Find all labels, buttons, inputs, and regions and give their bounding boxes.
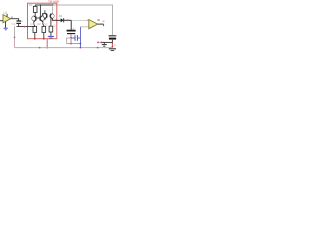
ground G4 at rail end — [109, 48, 116, 50]
wire Q4 collector from rail — [52, 5, 54, 14]
wire red drop from box bottom to ground rail — [46, 39, 48, 48]
ground (blue) under R4 — [50, 32, 52, 36]
transistor Q3 — [46, 13, 48, 17]
capacitor C2 — [67, 30, 76, 32]
node red junction after diode — [67, 19, 69, 21]
node red junction — [101, 42, 103, 44]
wire from Q4 out of box — [53, 19, 61, 21]
svg-text:U1: U1 — [3, 11, 7, 15]
op-amp U1 (left) — [3, 15, 11, 23]
wire rail left corner pink tint — [15, 40, 27, 48]
background — [0, 0, 120, 63]
node magenta dot — [70, 43, 72, 45]
wire U2 -in (gray) — [80, 26, 88, 28]
wire feedback column (blue) — [79, 27, 81, 48]
resistor R3 — [42, 26, 46, 32]
wire C2 bottom (red) — [70, 34, 72, 43]
wire Q2 collector up to Q3 base — [43, 14, 47, 16]
capacitor C1 — [16, 20, 21, 22]
svg-text:+: + — [73, 26, 75, 30]
node red dot left of U2 — [87, 19, 89, 20]
wire U1 V+ pin up — [6, 14, 8, 17]
node junction on rail at x=52.6 — [52, 4, 54, 6]
node magenta junction on rail — [97, 47, 99, 49]
wire U1 V- pin down — [5, 22, 7, 28]
wire from C1 into box — [17, 26, 35, 28]
op-amp U2 (right) — [89, 20, 98, 29]
node dark red junctions on box bottom line — [34, 38, 36, 40]
wire U1 input stub — [0, 20, 3, 22]
node magenta junction — [24, 26, 26, 28]
wire U1 output to C1 — [11, 19, 19, 21]
wire VCC top rail (gray segment to right edge and down) — [53, 5, 113, 35]
wire bottom link (gray) — [67, 43, 81, 45]
svg-text:Q1: Q1 — [30, 22, 34, 26]
capacitor C3 top plate — [109, 35, 117, 37]
transistor Q2 circle — [39, 16, 44, 21]
wire red segment to rail — [111, 42, 113, 47]
transistor Q1 — [35, 16, 37, 21]
transistor Q1 circle — [32, 16, 37, 21]
wire diode to junction — [64, 19, 71, 21]
wire U2 output — [98, 23, 104, 25]
svg-text:Q2: Q2 — [37, 22, 41, 26]
svg-text:C1: C1 — [12, 22, 16, 26]
node magenta junction on rail — [80, 47, 82, 49]
wire C4 to feedback column (blue) — [78, 37, 81, 39]
transistor Q4 — [50, 14, 52, 19]
resistor R4 — [49, 26, 53, 32]
wire collector Q2 from rail — [39, 5, 41, 16]
wire left drop to ground rail (gray) — [14, 26, 16, 47]
transistor Q3 circle — [43, 14, 48, 19]
resistor R2 — [33, 26, 37, 32]
wire VCC top rail (black segment inside box) — [35, 4, 53, 6]
node magenta dot on left drop — [14, 37, 16, 39]
port output tick — [103, 24, 105, 26]
wire Q3 collector stub up — [44, 10, 46, 13]
wire to U2 +in (light gray) — [71, 20, 89, 22]
svg-text:TR MIR: TR MIR — [48, 0, 60, 4]
wire R4 top lead — [50, 19, 52, 27]
label OUT (red) — [103, 21, 105, 22]
capacitor C4 (blue) wire — [71, 37, 75, 39]
node red dot at U1 output — [11, 17, 13, 18]
wire ground bottom rail (gray) — [15, 47, 113, 49]
label U2 (red) — [97, 19, 99, 21]
node magenta dot — [70, 37, 72, 39]
highlight box (red) — [28, 3, 57, 39]
svg-text:1u: 1u — [20, 19, 24, 23]
svg-text:C: C — [114, 43, 116, 47]
wire C3 bottom lead — [111, 40, 113, 43]
svg-text:+: + — [115, 34, 117, 38]
diode D1 — [61, 18, 64, 22]
capacitor C3 bottom plate (thick) — [109, 38, 116, 40]
capacitor C4 (blue) plates — [74, 35, 76, 41]
ground (blue) under U1 — [4, 27, 8, 29]
node magenta dot at left end — [97, 42, 99, 44]
transistor Q4 circle — [50, 14, 55, 19]
svg-text:Q3: Q3 — [43, 23, 47, 27]
wire ground link right (gray+black) — [98, 41, 101, 43]
ground G3 — [103, 42, 105, 44]
transistor Q2 — [39, 16, 41, 21]
wire gray L under C2 — [67, 38, 71, 44]
node junction on rail at x=40.4 — [40, 4, 42, 6]
svg-text:BX: BX — [29, 3, 33, 7]
svg-text:D1: D1 — [59, 14, 63, 18]
node blue dot — [80, 43, 82, 45]
capacitor C2 lead — [70, 20, 72, 30]
resistor R1 — [34, 5, 36, 6]
node magenta junction on rail — [39, 47, 41, 49]
wire base link Q1-Q2 — [36, 17, 41, 19]
